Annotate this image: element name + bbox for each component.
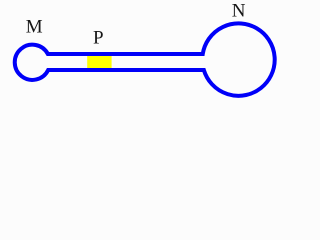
svg-text:M: M	[26, 16, 43, 37]
svg-text:N: N	[232, 1, 246, 22]
svg-text:P: P	[93, 27, 104, 48]
